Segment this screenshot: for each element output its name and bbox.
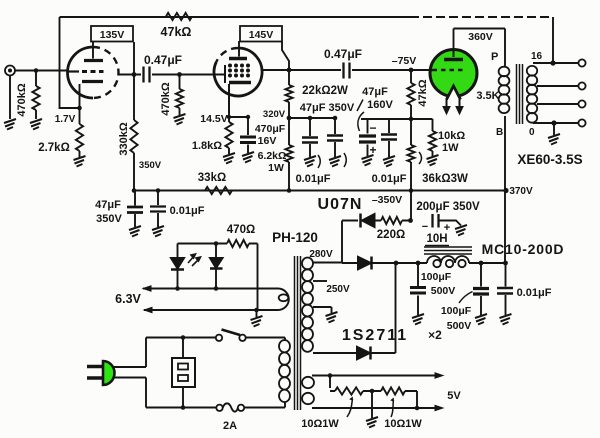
svg-text:14.5V: 14.5V (200, 113, 227, 125)
svg-text:10H: 10H (426, 233, 447, 245)
svg-text:470kΩ: 470kΩ (16, 83, 28, 116)
svg-text:1.7V: 1.7V (55, 114, 76, 125)
svg-text:470μF: 470μF (255, 123, 286, 135)
svg-text:2.7kΩ: 2.7kΩ (38, 142, 70, 154)
svg-text:0: 0 (529, 127, 535, 138)
svg-text:500V: 500V (431, 285, 456, 297)
svg-text:1.8kΩ: 1.8kΩ (192, 140, 222, 152)
svg-text:6.3V: 6.3V (115, 292, 141, 306)
svg-text:3.5K: 3.5K (476, 90, 499, 102)
svg-text:0.01μF: 0.01μF (296, 173, 331, 185)
svg-text:×2: ×2 (428, 328, 442, 342)
svg-text:47μF 350V: 47μF 350V (300, 102, 355, 114)
svg-text:16V: 16V (258, 135, 277, 147)
svg-text:XE60-3.5S: XE60-3.5S (517, 152, 582, 167)
svg-text:–350V: –350V (372, 194, 402, 206)
svg-text:U07N: U07N (318, 196, 363, 213)
svg-text:330kΩ: 330kΩ (118, 122, 130, 155)
svg-text:0.01μF: 0.01μF (170, 205, 205, 217)
svg-text:−: − (422, 221, 428, 233)
svg-text:47kΩ: 47kΩ (417, 79, 429, 106)
svg-text:500V: 500V (447, 320, 472, 332)
svg-text:470Ω: 470Ω (227, 224, 255, 236)
svg-text:16: 16 (531, 51, 543, 62)
svg-text:5V: 5V (447, 390, 461, 402)
svg-text:0.01μF: 0.01μF (517, 287, 552, 299)
svg-text:250V: 250V (326, 284, 350, 295)
svg-text:+: + (369, 143, 376, 157)
svg-text:–75V: –75V (392, 55, 417, 67)
svg-text:470kΩ: 470kΩ (160, 82, 172, 115)
svg-text:200μF 350V: 200μF 350V (416, 201, 480, 213)
svg-text:135V: 135V (100, 29, 125, 41)
svg-text:47μF: 47μF (362, 86, 388, 98)
svg-text:0.47μF: 0.47μF (324, 47, 362, 61)
svg-text:145V: 145V (249, 29, 274, 41)
svg-text:6.2kΩ: 6.2kΩ (258, 150, 287, 162)
svg-text:47μF: 47μF (95, 199, 121, 211)
svg-text:350V: 350V (96, 213, 122, 225)
svg-text:22kΩ2W: 22kΩ2W (302, 85, 348, 97)
svg-text:36kΩ3W: 36kΩ3W (422, 173, 468, 185)
svg-text:370V: 370V (509, 186, 533, 197)
svg-text:360V: 360V (468, 31, 493, 43)
svg-text:220Ω: 220Ω (377, 229, 405, 241)
svg-text:0.47μF: 0.47μF (144, 53, 182, 67)
svg-text:10kΩ: 10kΩ (438, 130, 465, 142)
svg-text:350V: 350V (139, 160, 162, 171)
svg-text:B: B (496, 127, 503, 138)
svg-text:P: P (491, 51, 498, 63)
svg-text:2A: 2A (223, 420, 237, 432)
svg-text:100μF: 100μF (441, 305, 472, 317)
svg-text:−: − (369, 121, 376, 135)
svg-text:PH-120: PH-120 (272, 230, 318, 245)
svg-text:320V: 320V (263, 109, 286, 120)
svg-text:10Ω1W: 10Ω1W (384, 418, 422, 430)
svg-text:0.01μF: 0.01μF (372, 173, 407, 185)
svg-text:MC10-200D: MC10-200D (482, 241, 565, 257)
svg-text:10Ω1W: 10Ω1W (301, 418, 339, 430)
svg-text:47kΩ: 47kΩ (161, 25, 192, 39)
svg-text:33kΩ: 33kΩ (198, 172, 226, 184)
svg-text:1S2711: 1S2711 (342, 327, 408, 344)
svg-text:1W: 1W (442, 142, 459, 154)
svg-text:+: + (444, 222, 450, 234)
svg-text:280V: 280V (309, 249, 333, 260)
svg-text:100μF: 100μF (421, 271, 452, 283)
svg-text:160V: 160V (367, 99, 393, 111)
svg-text:1W: 1W (268, 162, 284, 174)
